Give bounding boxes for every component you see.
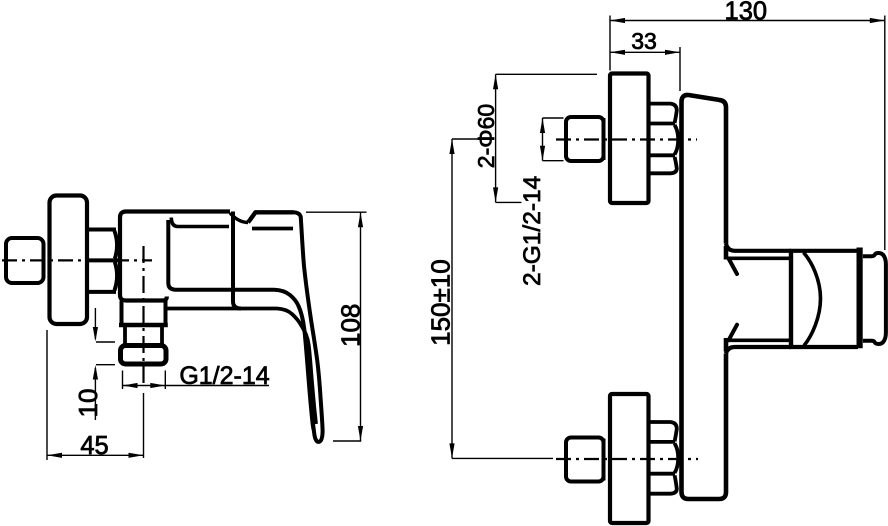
flare flick top: [724, 246, 729, 260]
outlet centerline: [142, 246, 144, 388]
svg-text:108: 108: [336, 304, 366, 347]
dimension 108: [306, 212, 367, 441]
outlet shoulder: [119, 323, 168, 327]
dimension 33: [610, 28, 680, 91]
dimension 150±10: [425, 139, 553, 458]
svg-text:33: 33: [631, 28, 657, 54]
handle grip top: [248, 212, 294, 222]
outlet tube: [125, 327, 162, 345]
eccentric connector square (side): [6, 238, 44, 283]
wall flange (side): [50, 196, 88, 325]
handle saddle curve: [230, 213, 248, 223]
body flare top: [726, 244, 791, 251]
dimension 130: [610, 0, 885, 250]
hex nut (side): [89, 230, 119, 292]
centerline bottom inlet: [556, 458, 698, 460]
hex nut (front) bottom: [649, 422, 679, 494]
eccentric connector square bottom: [566, 438, 604, 482]
wall flange (front) bottom: [610, 394, 649, 523]
centerline left inlet: [2, 259, 152, 261]
centerline top inlet: [556, 138, 697, 140]
outlet ring G1/2 thread: [121, 346, 167, 365]
outlet neck: [122, 301, 166, 324]
joint line top: [602, 118, 606, 160]
dimension G1/2-14: [123, 362, 270, 390]
svg-text:G1/2-14: G1/2-14: [179, 362, 269, 390]
body plate (front): [682, 95, 727, 499]
svg-text:150±10: 150±10: [425, 259, 455, 346]
svg-text:2-G1/2-14: 2-G1/2-14: [519, 176, 546, 286]
body flare bottom: [726, 347, 791, 354]
dimension 45: [47, 330, 144, 460]
wall flange (front) top: [610, 74, 649, 204]
svg-text:10: 10: [73, 389, 103, 418]
handle grip inner line: [252, 227, 293, 231]
handle cap: [863, 253, 886, 344]
dimension 2-Φ60: [473, 74, 597, 202]
valve body (side): [120, 212, 230, 301]
cartridge bonnet line: [171, 218, 229, 227]
spout upper line: [168, 220, 313, 430]
svg-text:130: 130: [725, 0, 768, 25]
flare flick bottom: [724, 338, 729, 352]
dimension 2-G1/2-14: [519, 118, 563, 286]
joint line bottom: [602, 439, 606, 481]
handle dome back edge: [233, 212, 241, 309]
spout lower line: [167, 309, 316, 425]
cartridge bulge line: [804, 253, 821, 346]
cartridge housing: [789, 248, 860, 349]
eccentric connector square top: [566, 117, 604, 161]
hex nut (front) top: [649, 104, 679, 174]
svg-text:2-Φ60: 2-Φ60: [473, 104, 499, 168]
svg-text:45: 45: [80, 432, 108, 460]
dimension 10: [73, 308, 115, 420]
handle blade: [294, 212, 323, 442]
